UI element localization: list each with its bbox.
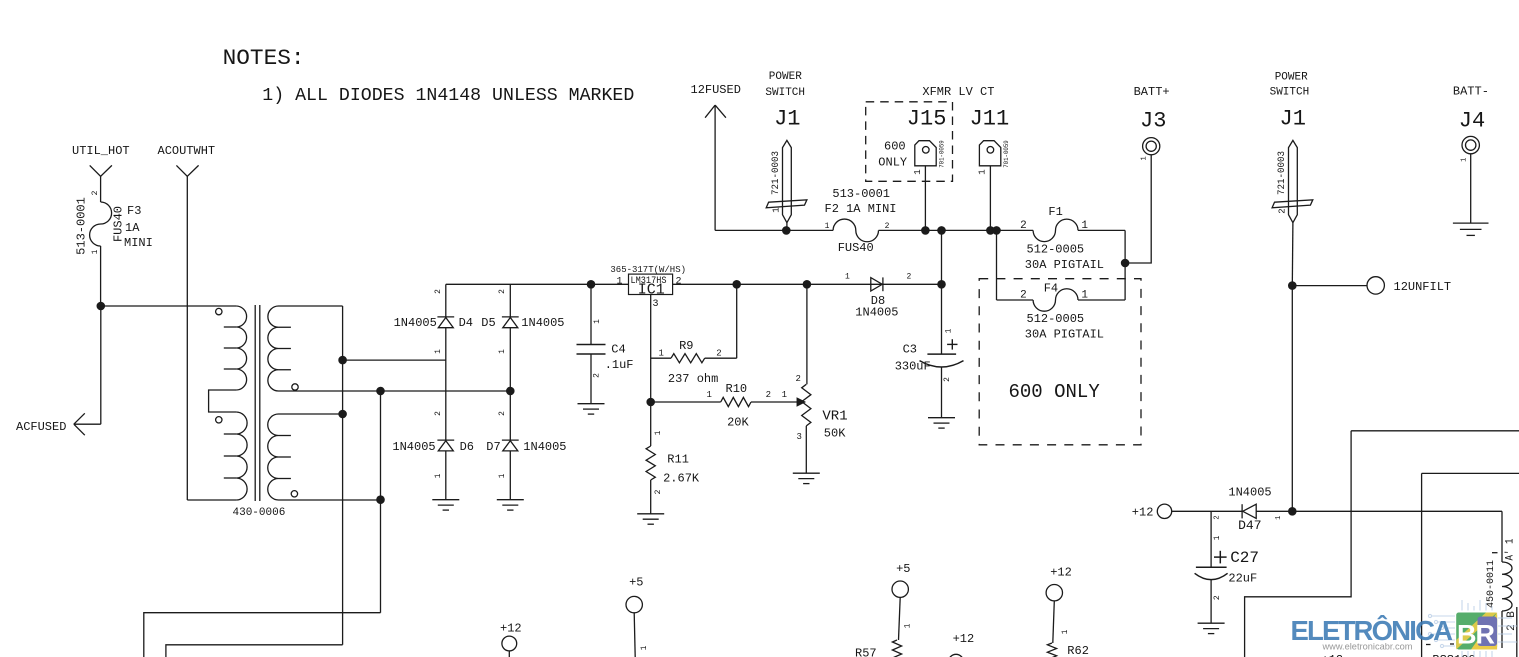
transformer phase dot primary lower <box>216 417 222 423</box>
diode D4 <box>437 317 454 328</box>
svg-text:1: 1 <box>782 390 787 400</box>
junction dot R9 top <box>732 280 741 289</box>
svg-text:POWER: POWER <box>769 71 802 83</box>
wire node down to ACFUSED <box>100 306 102 424</box>
connector J3 name <box>1140 108 1166 133</box>
label POWER right <box>1275 72 1308 84</box>
diode D7 <box>502 440 519 451</box>
port ACFUSED label <box>16 420 66 434</box>
label C4 <box>611 343 625 357</box>
wire UTIL_HOT to fuse F3 <box>100 176 102 202</box>
wire R11 bottom lead <box>650 480 652 514</box>
svg-text:J1: J1 <box>1280 107 1306 132</box>
svg-text:30A PIGTAIL: 30A PIGTAIL <box>1025 258 1104 272</box>
svg-text:FUS40: FUS40 <box>838 241 874 255</box>
fuse F3 part number 513-0001 <box>75 197 89 255</box>
svg-text:2: 2 <box>593 373 602 378</box>
fuse F1 <box>1033 219 1078 241</box>
port +12 bottom-left label <box>500 622 522 636</box>
diode D47 pin 1 <box>1275 516 1283 520</box>
svg-text:UTIL_HOT: UTIL_HOT <box>72 144 130 158</box>
switch J1 left blade <box>783 140 792 222</box>
wire J11 down <box>989 166 991 231</box>
svg-text:R10: R10 <box>726 382 748 396</box>
port +12 mid circle <box>949 654 964 657</box>
svg-text:2 B: 2 B <box>1506 611 1518 631</box>
wire +5 left down <box>634 613 635 657</box>
svg-text:3: 3 <box>653 299 659 310</box>
svg-text:www.eletronicabr.com: www.eletronicabr.com <box>1322 642 1413 653</box>
fuse F4 pin 2 <box>1020 289 1027 301</box>
junction dot J15 <box>921 226 930 235</box>
diode D8 pin 1 <box>845 273 850 282</box>
port +12 bottom-left circle <box>502 636 517 651</box>
junction dot secondary bus upper <box>338 356 347 365</box>
fuse F4 pin 1 <box>1081 289 1088 301</box>
wire +5 mid down <box>899 597 901 640</box>
fuse F3 value MINI <box>124 236 153 250</box>
fuse F3 label F3 <box>127 204 141 218</box>
wire J1 right down <box>1291 223 1294 286</box>
label R10 <box>726 382 748 396</box>
transformer primary jog wire <box>209 390 237 412</box>
svg-text:1) ALL DIODES 1N4148 UNLESS MA: 1) ALL DIODES 1N4148 UNLESS MARKED <box>262 86 634 106</box>
svg-text:1: 1 <box>1213 535 1222 540</box>
label D7 1N4005 <box>523 440 566 454</box>
svg-text:1: 1 <box>593 319 602 324</box>
svg-text:SWITCH: SWITCH <box>765 87 805 99</box>
fuse F2 <box>833 219 878 242</box>
svg-text:1N4005: 1N4005 <box>392 440 435 454</box>
label D5 <box>481 316 495 330</box>
wire J3 down <box>1125 155 1151 263</box>
wire D47 to node <box>1256 510 1292 512</box>
label D5 1N4005 <box>521 316 564 330</box>
resistor R11 pin 2 <box>654 489 663 494</box>
svg-text:D4: D4 <box>459 316 473 330</box>
port ACOUTWHT symbol <box>176 165 198 176</box>
label R11 <box>667 452 689 466</box>
wire R11 top lead <box>650 402 652 446</box>
ground C4 <box>578 404 605 414</box>
svg-text:BATT+: BATT+ <box>1134 85 1170 99</box>
svg-text:1N4005: 1N4005 <box>855 305 898 319</box>
svg-text:2: 2 <box>498 411 507 416</box>
note heading NOTES: <box>223 46 305 71</box>
wire node to transformer primary <box>101 305 236 307</box>
port ACOUTWHT label <box>158 144 216 158</box>
svg-text:1: 1 <box>434 473 443 478</box>
port BATT+ label <box>1134 85 1170 99</box>
label R11 value 2.67K <box>663 472 700 486</box>
resistor R11 <box>646 446 655 480</box>
svg-text:1N4005: 1N4005 <box>523 440 566 454</box>
inductor winding A' pin tick <box>1492 552 1498 554</box>
junction dot UTIL line <box>97 302 106 311</box>
junction dot C3 top <box>937 280 946 289</box>
label D8 <box>871 294 885 308</box>
regulator IC1 part number 365-317T(W/HS) <box>610 265 686 275</box>
svg-text:2: 2 <box>1213 515 1221 519</box>
diode D5 <box>502 317 519 328</box>
wire F1 output down <box>1124 230 1126 300</box>
port 12UNFILT label <box>1394 280 1452 294</box>
junction dot J1 left <box>782 226 791 235</box>
svg-text:1: 1 <box>913 169 923 174</box>
transformer phase dot secondary upper <box>292 384 298 390</box>
port +5 mid label <box>896 562 910 576</box>
svg-text:ACFUSED: ACFUSED <box>16 420 66 434</box>
inductor winding A' label <box>1505 538 1517 560</box>
label D47 <box>1238 518 1261 533</box>
wire rail IC1 to C3 node <box>673 283 942 285</box>
wire J4 down <box>1470 154 1472 223</box>
svg-text:+12: +12 <box>1132 506 1154 520</box>
connector J1 right name <box>1280 107 1306 132</box>
junction dot J3 node <box>1121 259 1130 268</box>
regulator IC1 pin 1 <box>617 276 623 287</box>
ground VR1 <box>793 473 820 483</box>
switch J1 right bar <box>1272 200 1313 208</box>
potentiometer VR1 <box>802 384 811 426</box>
label BSS100 <box>1432 653 1475 657</box>
fuse F2 pin 1 <box>825 222 830 231</box>
fuse F3 <box>90 202 112 246</box>
capacitor C4 <box>577 345 606 355</box>
svg-text:J4: J4 <box>1459 108 1485 133</box>
transformer core <box>255 305 260 501</box>
svg-text:XFMR LV CT: XFMR LV CT <box>922 85 994 99</box>
svg-text:1: 1 <box>978 169 988 174</box>
svg-text:C4: C4 <box>611 343 625 357</box>
svg-text:721-0003: 721-0003 <box>770 151 782 195</box>
junction dot 12UNFILT <box>1288 281 1297 290</box>
svg-text:J1: J1 <box>774 107 800 132</box>
junction dot C3 rail <box>937 226 946 235</box>
svg-text:513-0001: 513-0001 <box>75 197 89 255</box>
resistor R9 <box>671 354 705 363</box>
diode D8 pin 2 <box>907 273 912 282</box>
wire +12 to D47 <box>1172 510 1242 512</box>
fuse F2 part number 513-0001 <box>832 187 890 201</box>
wire secondary lower exit <box>279 499 381 501</box>
label C27 <box>1230 549 1259 567</box>
port 12FUSED label <box>691 83 741 97</box>
transformer part number 430-0006 <box>233 507 286 519</box>
wire bottom run upper <box>144 613 381 657</box>
wire rail D4 to IC1 <box>446 283 629 285</box>
dashed box 600 ONLY J15 <box>866 102 953 182</box>
svg-text:1: 1 <box>825 222 830 231</box>
label R9 <box>679 339 693 353</box>
label F1 30A PIGTAIL <box>1025 258 1104 272</box>
diode D7 pin 2 <box>498 411 507 416</box>
label C4 value .1uF <box>605 358 634 372</box>
svg-text:2: 2 <box>434 289 443 294</box>
svg-text:1: 1 <box>91 249 100 254</box>
label F4 30A PIGTAIL <box>1025 328 1104 342</box>
diode D47 <box>1242 504 1256 518</box>
svg-text:1: 1 <box>945 328 954 333</box>
junction dot IC1 adj node <box>646 398 655 407</box>
label VR1 <box>822 409 847 425</box>
svg-text:D6: D6 <box>460 440 474 454</box>
connector J3 ring <box>1143 138 1160 155</box>
wire 12FUSED down <box>714 105 716 230</box>
svg-text:12UNFILT: 12UNFILT <box>1394 280 1452 294</box>
wire C27 top lead <box>1210 511 1212 567</box>
diode D6 pin 1 <box>434 473 443 478</box>
svg-text:1: 1 <box>904 623 913 628</box>
wire right bus A <box>1245 431 1352 657</box>
capacitor C3 pin 1 <box>945 328 954 333</box>
diode D5 pin 1 <box>498 349 507 354</box>
svg-text:+12: +12 <box>953 632 975 646</box>
fuse F3 pin 1 <box>91 249 100 254</box>
connector J15 name <box>907 107 947 132</box>
port +12 right label <box>1050 565 1072 579</box>
wire F1 left lead <box>997 229 1034 231</box>
wire R9 left lead <box>651 357 671 359</box>
inductor winding B label <box>1506 611 1518 631</box>
connector J4 ring <box>1462 136 1479 153</box>
connector J4 pin 1 <box>1460 158 1468 162</box>
wire secondary lower entry <box>279 413 343 415</box>
diode D47 pin 2 <box>1213 515 1221 519</box>
switch J1 left pin 1 <box>771 207 781 212</box>
wire 12FUSED to J1 <box>715 229 786 231</box>
label VR1 value 50K <box>824 426 846 440</box>
switch J1 left part number 721-0003 <box>770 151 782 195</box>
connector J3 pin 1 <box>1140 156 1148 160</box>
wire ACOUTWHT down <box>186 176 188 500</box>
switch J1 right blade <box>1289 140 1298 222</box>
wire secondary upper exit to D5 anode <box>279 390 511 392</box>
wire C3 top lead <box>941 284 943 354</box>
svg-text:C3: C3 <box>903 343 917 357</box>
label D8 1N4005 <box>855 305 898 319</box>
wire D5 anode down <box>509 328 511 440</box>
svg-text:MINI: MINI <box>124 236 153 250</box>
fuse F1 pin 2 <box>1020 220 1027 232</box>
svg-text:512-0005: 512-0005 <box>1027 243 1085 257</box>
svg-text:1A: 1A <box>125 221 140 235</box>
capacitor C27 pin 2 <box>1213 595 1222 600</box>
inductor 450-0011 winding <box>1502 562 1512 611</box>
wire F2 left lead <box>786 229 833 231</box>
svg-text:C27: C27 <box>1230 549 1259 567</box>
wire +12 rail corner down <box>1501 511 1503 562</box>
port +12 label left <box>1132 506 1154 520</box>
port 12FUSED arrow <box>705 105 726 118</box>
port UTIL_HOT symbol <box>90 165 112 176</box>
label SWITCH right <box>1270 87 1310 99</box>
svg-text:2: 2 <box>676 276 682 287</box>
wire right bus A horizontal <box>1351 430 1519 432</box>
label F1 <box>1048 205 1062 219</box>
wire IC1 adj down <box>650 295 652 403</box>
note 1 ALL DIODES text <box>262 86 634 106</box>
port BATT- label <box>1453 85 1489 99</box>
svg-text:2: 2 <box>434 411 443 416</box>
wire F1 right lead <box>1078 229 1125 231</box>
label D4 1N4005 <box>394 316 437 330</box>
svg-text:A' 1: A' 1 <box>1505 538 1517 560</box>
port +5 left circle <box>626 596 642 612</box>
capacitor C27 bottom plate <box>1195 573 1228 579</box>
svg-text:450-0011: 450-0011 <box>1486 560 1497 608</box>
transformer secondary winding lower <box>268 414 291 500</box>
port +12 circle <box>1157 504 1171 518</box>
label D6 <box>460 440 474 454</box>
fuse F2 pin 2 <box>885 222 890 231</box>
diode D7 pin 1 <box>498 473 507 478</box>
svg-text:2.67K: 2.67K <box>663 472 700 486</box>
resistor pin 1 below +5 left <box>640 645 649 650</box>
wire VR1 bottom lead <box>805 426 807 473</box>
svg-text:237 ohm: 237 ohm <box>668 372 718 386</box>
diode D4 pin 1 <box>434 349 443 354</box>
wire bus to D4 anode <box>343 359 446 361</box>
svg-text:600 ONLY: 600 ONLY <box>1009 381 1101 403</box>
regulator IC1 name <box>638 282 665 299</box>
wire D4 cathode to rail <box>445 284 447 317</box>
ground D6 <box>432 500 459 510</box>
wire D6 anode down <box>445 451 447 500</box>
part BSS100 pin marks <box>1426 643 1454 646</box>
label R9 value 237 ohm <box>668 372 718 386</box>
label XFMR LV CT <box>922 85 994 99</box>
svg-text:2: 2 <box>885 222 890 231</box>
svg-text:F3: F3 <box>127 204 141 218</box>
label SWITCH left <box>765 87 805 99</box>
ground C27 <box>1198 623 1225 633</box>
connector J11 part number 701-0059 <box>1003 140 1010 168</box>
wire secondary vertical bus <box>342 306 344 645</box>
connector J1 left name <box>774 107 800 132</box>
svg-text:1: 1 <box>498 349 507 354</box>
svg-text:D7: D7 <box>486 440 500 454</box>
diode D5 pin 2 <box>498 289 507 294</box>
junction dot VR1 top <box>803 280 812 289</box>
svg-text:701-0059: 701-0059 <box>1003 140 1010 168</box>
watermark eletronicabr logo <box>1291 600 1518 657</box>
resistor R62 <box>1047 643 1056 657</box>
svg-text:2: 2 <box>943 377 952 382</box>
svg-text:1: 1 <box>1061 629 1070 634</box>
resistor R62 pin 1 <box>1061 629 1070 634</box>
regulator IC1 pin 3 <box>653 299 659 310</box>
svg-text:701-0059: 701-0059 <box>938 140 945 168</box>
svg-text:330uF: 330uF <box>895 360 931 374</box>
ground R11 <box>637 514 664 524</box>
resistor R10 pin 2 <box>766 390 771 400</box>
svg-text:365-317T(W/HS): 365-317T(W/HS) <box>610 265 686 275</box>
wire D4 anode down <box>445 328 447 440</box>
fuse F2 type FUS40 <box>838 241 874 255</box>
capacitor C3 plus sign <box>947 339 957 349</box>
svg-text:+12: +12 <box>1322 653 1344 657</box>
port +5 mid circle <box>892 581 908 597</box>
potentiometer VR1 wiper pin 1 <box>782 390 787 400</box>
junction dot F4 branch <box>992 226 1001 235</box>
capacitor C3 top plate <box>927 353 956 355</box>
svg-text:2: 2 <box>766 390 771 400</box>
svg-text:1: 1 <box>845 273 850 282</box>
capacitor C27 top plate <box>1196 566 1227 568</box>
svg-text:ACOUTWHT: ACOUTWHT <box>158 144 216 158</box>
svg-text:22uF: 22uF <box>1228 571 1257 585</box>
potentiometer VR1 pin 2 <box>796 374 801 384</box>
label D6 1N4005 <box>392 440 435 454</box>
port ACFUSED arrow <box>74 413 101 435</box>
junction dot J11 <box>986 226 995 235</box>
label D7 <box>486 440 500 454</box>
capacitor C27 plus sign <box>1214 551 1227 564</box>
connector J4 name <box>1459 108 1485 133</box>
wire +12 right down <box>1053 601 1055 643</box>
label D47 1N4005 <box>1228 486 1271 500</box>
wire F4 left lead <box>997 299 1034 301</box>
wire C3 bottom lead <box>941 367 943 418</box>
port +12 right circle <box>1046 585 1062 601</box>
svg-text:512-0005: 512-0005 <box>1027 312 1085 326</box>
svg-text:2: 2 <box>907 273 912 282</box>
svg-text:+12: +12 <box>500 622 522 636</box>
diode D4 pin 2 <box>434 289 443 294</box>
resistor R9 pin 2 <box>716 348 721 358</box>
resistor R9 pin 1 <box>659 348 664 358</box>
potentiometer VR1 pin 3 <box>797 432 802 442</box>
regulator IC1 pin 2 <box>676 276 682 287</box>
svg-text:D47: D47 <box>1238 518 1261 533</box>
svg-text:+12: +12 <box>1050 565 1072 579</box>
regulator IC1 box <box>629 274 673 294</box>
switch J1 right pin 2 <box>1277 208 1287 213</box>
capacitor C4 pin 2 <box>593 373 602 378</box>
wire F2 right lead <box>879 229 997 231</box>
svg-text:1: 1 <box>1275 516 1283 520</box>
label C3 value 330uF <box>895 360 931 374</box>
wire transformer core right <box>1516 607 1518 657</box>
svg-text:NOTES:: NOTES: <box>223 46 305 71</box>
svg-text:VR1: VR1 <box>822 409 847 425</box>
label 600 small <box>884 140 906 154</box>
svg-text:2: 2 <box>796 374 801 384</box>
svg-text:600: 600 <box>884 140 906 154</box>
label 600 ONLY big <box>1009 381 1101 403</box>
connector J15 pin 1 <box>913 169 923 174</box>
label +12 partial bottom <box>1322 653 1344 657</box>
label R10 value 20K <box>727 416 749 430</box>
svg-text:1: 1 <box>1460 158 1468 162</box>
port UTIL_HOT label <box>72 144 130 158</box>
junction dot C4 <box>587 280 596 289</box>
diode D6 pin 2 <box>434 411 443 416</box>
svg-text:2: 2 <box>716 348 721 358</box>
transformer phase dot secondary lower <box>291 491 297 497</box>
wire R10 right lead <box>751 401 800 403</box>
fuse F1 pin 1 <box>1081 220 1088 232</box>
wire F3 to node <box>100 246 102 306</box>
transformer primary winding lower <box>224 412 247 500</box>
transformer primary winding upper <box>224 306 247 390</box>
label D4 <box>459 316 473 330</box>
svg-text:20K: 20K <box>727 416 749 430</box>
resistor R10 <box>721 397 751 406</box>
port +12 mid label <box>953 632 975 646</box>
fuse F3 type FUS40 <box>112 206 126 242</box>
